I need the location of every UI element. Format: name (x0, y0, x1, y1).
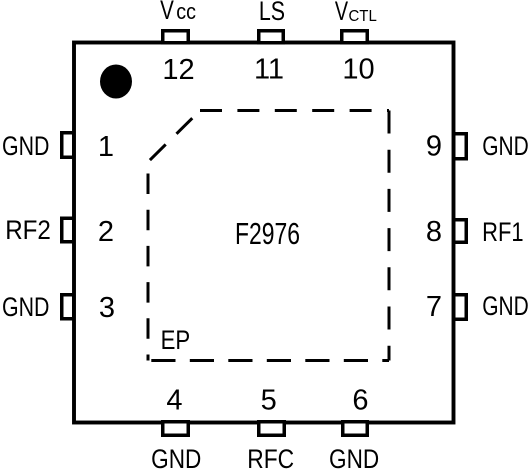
pin label RFC (bottom, pin 5) (247, 444, 294, 474)
svg-text:F2976: F2976 (235, 216, 300, 251)
svg-text:LS: LS (259, 0, 285, 26)
exposed pad EP dashed outline: chamfer (148, 111, 200, 163)
svg-text:11: 11 (254, 54, 284, 86)
svg-text:GND: GND (151, 444, 201, 474)
exposed pad EP dashed outline: right edge (388, 111, 391, 361)
svg-text:RFC: RFC (247, 444, 294, 474)
svg-text:GND: GND (2, 132, 49, 162)
svg-text:5: 5 (261, 385, 277, 417)
svg-text:10: 10 (342, 54, 374, 86)
pin label GND (left, pin 1) (2, 132, 49, 162)
pin label GND (right, pin 9) (482, 132, 529, 162)
pin label LS (top, pin 11) (259, 0, 285, 26)
exposed pad EP dashed outline: top edge (200, 109, 389, 112)
svg-text:GND: GND (2, 293, 49, 323)
pin stub 12 (163, 31, 189, 43)
svg-text:GND: GND (482, 292, 529, 322)
svg-text:7: 7 (426, 291, 442, 323)
part number F2976 (235, 216, 300, 251)
svg-text:3: 3 (99, 292, 115, 324)
pin stub 7 (454, 295, 467, 320)
pin label VCTL (top, pin 10) (335, 0, 348, 27)
svg-text:EP: EP (161, 326, 191, 356)
svg-text:9: 9 (426, 131, 442, 163)
pin label GND (bottom, pin 4) (151, 444, 201, 474)
pin stub 2 (62, 218, 74, 242)
svg-text:cc: cc (176, 0, 196, 24)
svg-text:1: 1 (98, 131, 114, 163)
pin stub 5 (259, 422, 285, 436)
pin-1 marker dot (100, 65, 132, 99)
pin label Vcc (top, pin 12) (160, 0, 174, 26)
svg-text:2: 2 (98, 216, 114, 248)
pin label GND (bottom, pin 6) (329, 444, 379, 474)
EP label (161, 326, 191, 356)
svg-text:8: 8 (426, 216, 442, 248)
pin stub 4 (163, 422, 189, 436)
svg-text:6: 6 (352, 385, 368, 417)
svg-text:GND: GND (482, 132, 529, 162)
exposed pad EP dashed outline: left edge (147, 162, 150, 361)
pin stub 9 (454, 134, 467, 159)
svg-text:4: 4 (166, 385, 182, 417)
pin label GND (left, pin 3) (2, 293, 49, 323)
package body (74, 43, 454, 423)
pin label GND (right, pin 7) (482, 292, 529, 322)
pin stub 6 (343, 422, 368, 436)
exposed pad EP dashed outline: bottom edge (148, 359, 389, 362)
svg-text:RF2: RF2 (5, 216, 51, 245)
pin stub 1 (62, 133, 74, 158)
svg-text:RF1: RF1 (482, 218, 523, 248)
svg-text:V: V (160, 0, 174, 26)
pin label RF1 (right, pin 8) (482, 218, 523, 248)
svg-text:12: 12 (162, 54, 194, 86)
pin stub 8 (454, 220, 467, 243)
svg-text:GND: GND (329, 444, 379, 474)
pin stub 10 (342, 31, 368, 43)
svg-text:V: V (335, 0, 348, 27)
svg-text:CTL: CTL (348, 8, 376, 25)
pin label RF2 (left, pin 2) (5, 216, 51, 245)
pin stub 11 (259, 31, 284, 43)
pin stub 3 (62, 295, 74, 319)
